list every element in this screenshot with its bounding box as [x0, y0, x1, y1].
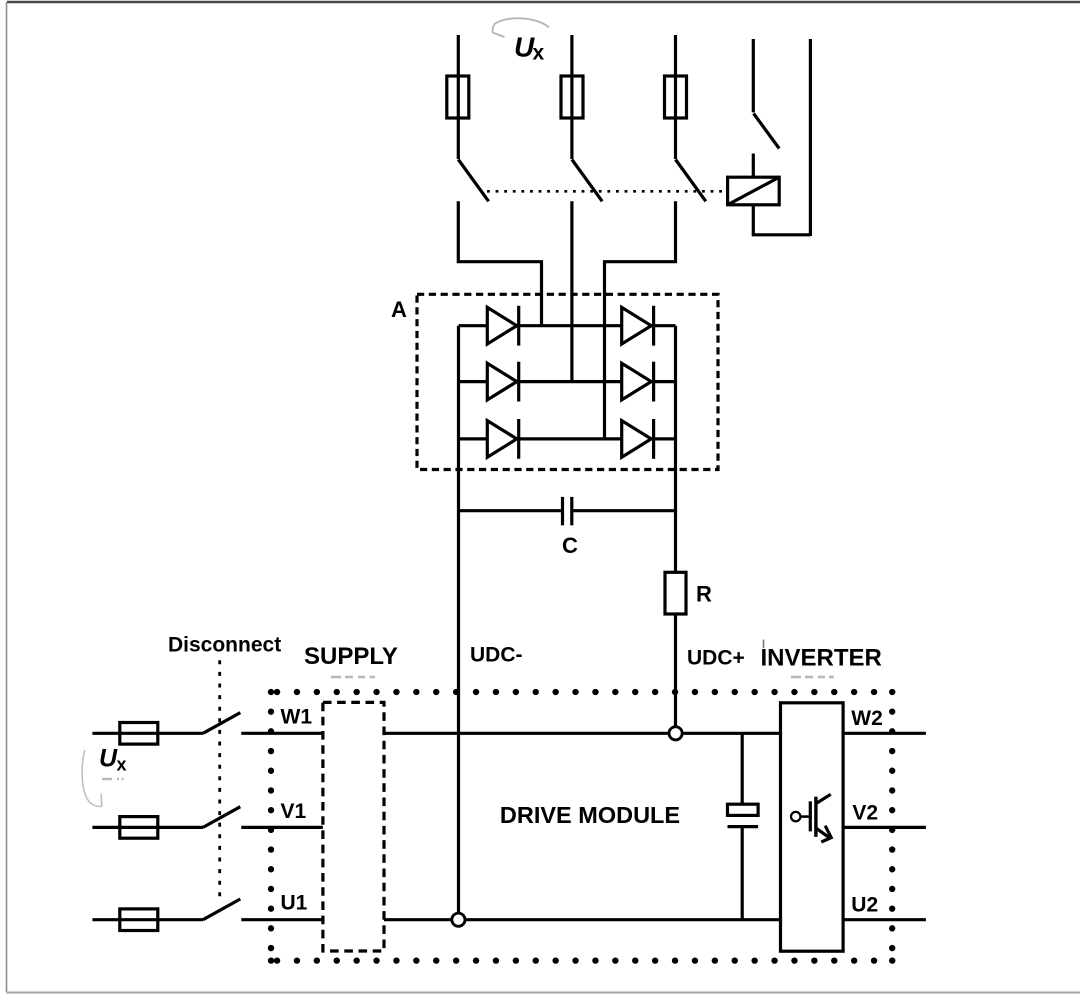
DC link capacitor wire bottom: [741, 827, 744, 920]
wire below coil: [753, 205, 810, 235]
fuse W1: [120, 723, 158, 745]
ghost remnant under SUPPLY: [331, 676, 375, 679]
svg-text:x: x: [117, 755, 127, 775]
diode D4: [622, 306, 654, 346]
svg-text:V2: V2: [852, 801, 878, 824]
switch contact L1: [458, 160, 488, 202]
svg-text:x: x: [533, 42, 545, 65]
DC bus top wire: [384, 732, 781, 735]
svg-text:U2: U2: [851, 893, 878, 916]
Ux rotation arrow (grey): [493, 18, 549, 37]
svg-text:Disconnect: Disconnect: [168, 634, 281, 657]
switch contact L3: [676, 160, 706, 202]
svg-text:SUPPLY: SUPPLY: [304, 643, 398, 670]
switch W1 blade: [203, 713, 240, 734]
supply unit dashed box: [323, 702, 384, 951]
contactor K1 contact branch: [752, 39, 755, 112]
label Ux (bottom feed): [99, 744, 127, 774]
rectifier row 3 wire: [459, 437, 676, 440]
svg-text:A: A: [391, 297, 407, 322]
diode D1: [487, 306, 518, 346]
wire V1 input: [92, 826, 203, 829]
wire U2 output: [843, 918, 926, 921]
wire W2 output: [843, 732, 926, 735]
svg-text:INVERTER: INVERTER: [761, 645, 882, 672]
wire W1 input: [92, 732, 203, 735]
svg-text:V1: V1: [281, 800, 307, 823]
svg-text:UDC-: UDC-: [470, 644, 523, 667]
svg-text:DRIVE MODULE: DRIVE MODULE: [500, 802, 680, 828]
drive module dotted enclosure: [271, 692, 892, 961]
fuse V1: [120, 817, 158, 839]
DC link capacitor plate (line): [728, 825, 759, 828]
svg-text:R: R: [696, 582, 712, 607]
switch U1 blade: [203, 899, 240, 920]
DC link capacitor plate (box): [728, 804, 759, 815]
fuse U1: [120, 909, 158, 931]
node UDC- junction: [452, 913, 465, 926]
DC bus bottom wire: [384, 918, 781, 921]
contactor K1 blade: [754, 114, 780, 149]
diode D6: [622, 419, 654, 459]
ghost remnant under Ux bottom: [102, 778, 124, 780]
wire contactor stub: [752, 154, 755, 178]
svg-text:UDC+: UDC+: [687, 647, 745, 670]
wire phase L1 top: [457, 35, 460, 159]
wire phase L2 top: [570, 35, 573, 159]
wire V1 to supply: [241, 826, 323, 829]
contactor K1 coil: [728, 177, 780, 205]
label Ux (top supply voltage): [514, 32, 545, 65]
stray tick above INVERTER: [763, 640, 765, 649]
capacitor C plates: [561, 497, 564, 525]
fuse F1: [447, 76, 469, 118]
UDC- bus (left rectifier bus down to node): [457, 326, 460, 918]
capacitor C wires: [459, 509, 561, 512]
wire contactor right branch: [809, 39, 812, 236]
wire L3 to rectifier input 3: [605, 201, 676, 439]
ghost remnant under INVERTER: [791, 676, 834, 679]
switch gang link (dotted): [487, 190, 727, 193]
svg-text:U1: U1: [281, 892, 308, 915]
inverter unit box: [781, 703, 844, 951]
wire W1 to supply: [241, 732, 323, 735]
switch contact L2: [572, 160, 602, 202]
Ux bottom rotation arrow (grey): [82, 750, 102, 807]
svg-text:W2: W2: [851, 707, 883, 730]
frame (decorative): [7, 1, 1080, 3]
UDC+ bus upper (right rectifier bus): [674, 326, 677, 573]
diode D2: [487, 362, 518, 402]
rectifier row 2 wire: [459, 380, 676, 383]
rectifier row 1 wire: [459, 324, 676, 327]
diode D3: [487, 419, 518, 459]
UDC+ bus lower (resistor to node): [674, 614, 677, 732]
wire V2 output: [843, 826, 926, 829]
wire L1 to rectifier input 1: [458, 201, 541, 325]
svg-text:W1: W1: [281, 706, 313, 729]
rectifier unit A dashed box: [417, 294, 718, 469]
IGBT Q1: [791, 794, 831, 842]
switch V1 blade: [203, 807, 240, 828]
wire U1 input: [92, 918, 203, 921]
fuse F3: [665, 76, 687, 118]
node UDC+ junction: [669, 727, 682, 740]
fuse F2: [561, 76, 583, 118]
svg-text:C: C: [562, 533, 578, 558]
resistor R: [665, 572, 686, 614]
diode D5: [622, 362, 654, 402]
wire L2 to rectifier input 2: [570, 201, 573, 381]
wire U1 to supply: [241, 918, 323, 921]
wire phase L3 top: [674, 35, 677, 159]
svg-text:U: U: [99, 744, 118, 772]
disconnect dotted line: [218, 660, 221, 898]
DC link capacitor wire top: [741, 733, 744, 804]
